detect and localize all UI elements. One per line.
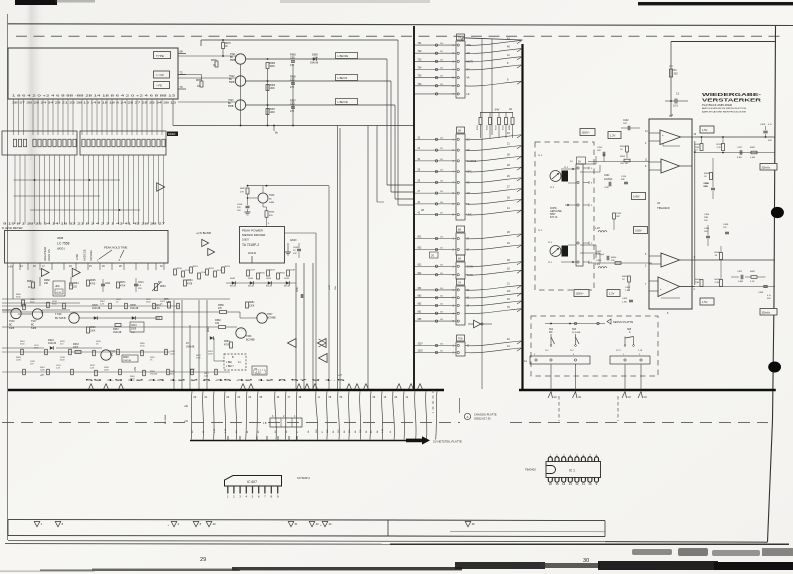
svg-text:558B: 558B xyxy=(228,106,234,108)
svg-text:100K: 100K xyxy=(170,353,175,355)
head connector ladder xyxy=(576,164,583,266)
svg-text:8,8N: 8,8N xyxy=(737,157,742,159)
svg-text:2,2K: 2,2K xyxy=(155,308,160,310)
svg-text:C637: C637 xyxy=(250,270,256,272)
svg-text:C408: C408 xyxy=(760,124,766,126)
wire supply drop xyxy=(670,42,672,118)
svg-text:BC: BC xyxy=(229,79,233,81)
svg-text:C6D: C6D xyxy=(290,57,295,60)
svg-text:C32: C32 xyxy=(215,323,220,325)
svg-text:R405: R405 xyxy=(715,279,721,281)
resistor R205 xyxy=(722,144,725,151)
resistor R405 xyxy=(720,280,723,287)
svg-text:T0A: T0A xyxy=(458,338,463,341)
svg-text:TA: TA xyxy=(458,37,461,40)
wire harness 8A right xyxy=(465,231,522,250)
svg-text:548B: 548B xyxy=(269,202,275,204)
svg-text:C406: C406 xyxy=(704,228,710,230)
wire dashed top rule xyxy=(16,35,781,37)
capacitor C633 xyxy=(297,248,301,250)
svg-text:R307: R307 xyxy=(750,147,756,149)
svg-text:R686: R686 xyxy=(218,304,224,307)
svg-text:D646: D646 xyxy=(230,278,236,280)
svg-text:DUNKEL: DUNKEL xyxy=(89,249,93,260)
svg-text:15: 15 xyxy=(555,482,559,486)
svg-text:12: 12 xyxy=(575,482,579,486)
svg-text:1N414B: 1N414B xyxy=(92,308,101,310)
buffer A604 triangle xyxy=(288,339,297,348)
svg-text:27K: 27K xyxy=(240,192,244,194)
capacitor C613 xyxy=(130,322,144,332)
transistor T623 xyxy=(235,100,245,110)
svg-text:BC: BC xyxy=(110,355,114,357)
wire supply rail y186 xyxy=(248,185,330,187)
svg-text:4,7u: 4,7u xyxy=(768,124,772,126)
svg-text:R660: R660 xyxy=(27,281,33,283)
wire harness 6A right xyxy=(465,259,522,275)
svg-text:VA: VA xyxy=(467,77,470,80)
svg-text:R68?: R68? xyxy=(240,188,246,190)
svg-text:R408: R408 xyxy=(715,252,721,254)
warning triangle 8b xyxy=(193,521,199,526)
svg-text:6A: 6A xyxy=(458,258,461,261)
svg-text:T616: T616 xyxy=(110,350,116,353)
svg-text:501: 501 xyxy=(440,273,443,275)
servo platte dashed box xyxy=(531,316,658,376)
label 1,5V upper xyxy=(700,126,714,133)
svg-text:18V: 18V xyxy=(623,123,627,125)
ground C618 xyxy=(247,209,249,212)
svg-text:505: 505 xyxy=(440,84,443,86)
svg-text:470K: 470K xyxy=(120,286,126,288)
svg-text:(MOD.): (MOD.) xyxy=(57,248,65,251)
svg-text:METER DRIVER: METER DRIVER xyxy=(242,233,266,237)
svg-text:AMPLIFICATEUR FR REPRODUCTION: AMPLIFICATEUR FR REPRODUCTION xyxy=(702,107,746,110)
svg-text:RA602: RA602 xyxy=(168,133,176,136)
connector T0A ladder xyxy=(456,342,465,356)
display unit DISP601 xyxy=(8,48,178,99)
board edge pin flags xyxy=(88,384,422,390)
connector 6A ladder xyxy=(456,262,465,279)
transistor T607 xyxy=(257,313,267,323)
svg-text:13: 13 xyxy=(569,482,573,486)
display pin 68 xyxy=(178,53,186,55)
IC 607 package outline xyxy=(225,476,282,487)
svg-text:uPA: uPA xyxy=(55,285,60,288)
svg-text:502: 502 xyxy=(440,159,443,161)
wire harness 7A left xyxy=(415,288,456,322)
svg-text:1007: 1007 xyxy=(418,344,424,346)
svg-text:R202: R202 xyxy=(620,156,626,158)
svg-text:502: 502 xyxy=(440,304,443,306)
svg-text:1N4148: 1N4148 xyxy=(48,343,57,345)
svg-text:558B: 558B xyxy=(229,82,235,84)
svg-text:18V: 18V xyxy=(597,150,601,152)
svg-text:25V: 25V xyxy=(138,288,142,290)
transistor T621 xyxy=(235,54,245,64)
svg-text:T630: T630 xyxy=(269,195,275,197)
svg-text:BC548B: BC548B xyxy=(267,318,276,320)
resistor R680 xyxy=(265,211,268,218)
resistor R683 xyxy=(230,342,233,348)
wire harness 5A left xyxy=(415,137,456,215)
svg-text:1,5V: 1,5V xyxy=(702,128,708,132)
IC 1 bottom pins xyxy=(548,478,598,483)
svg-text:DN: DN xyxy=(254,368,258,370)
warning triangle 40 xyxy=(206,521,212,526)
svg-text:68: 68 xyxy=(180,50,184,54)
wire meter lamp row 1 xyxy=(245,58,387,60)
wire head L to ladder xyxy=(561,168,576,170)
transistor T636 xyxy=(69,313,79,323)
display pin 72 xyxy=(178,74,186,76)
svg-text:502: 502 xyxy=(440,59,443,61)
wire emitter rail to 8v xyxy=(172,99,174,126)
svg-text:503: 503 xyxy=(440,68,443,70)
label node 20 xyxy=(430,252,439,258)
wire feedback rail xyxy=(694,141,696,285)
board edge right block bottom xyxy=(519,389,776,392)
svg-text:BC: BC xyxy=(269,199,272,201)
svg-text:100K: 100K xyxy=(40,369,45,371)
svg-text:R204: R204 xyxy=(695,144,701,146)
wire bus board-to-board connector xyxy=(191,392,437,440)
buffer A601 triangle xyxy=(157,183,165,191)
warning triangle 43 xyxy=(309,521,315,526)
svg-text:8414B: 8414B xyxy=(266,286,272,288)
voltage label +3.2V xyxy=(252,366,267,375)
svg-text:WIEDERGABE-: WIEDERGABE- xyxy=(702,92,762,98)
resistor R414 xyxy=(700,280,703,287)
IC LC 7558 level meter driver xyxy=(5,231,169,264)
svg-text:75B: 75B xyxy=(695,147,699,149)
label texture field xyxy=(16,294,214,380)
wire harness TA right xyxy=(465,38,522,86)
head housing dashed box xyxy=(535,142,594,290)
warning triangle 49 xyxy=(465,521,471,526)
svg-text:503: 503 xyxy=(440,311,443,313)
svg-text:1,2K: 1,2K xyxy=(166,302,171,304)
svg-text:56P: 56P xyxy=(621,179,625,181)
svg-text:AMPLIFICATORE FA RIPRODUZIONE: AMPLIFICATORE FA RIPRODUZIONE xyxy=(702,110,747,113)
svg-text:T622: T622 xyxy=(229,75,235,78)
label L BEI IR xyxy=(336,75,358,81)
wire servo drops xyxy=(550,364,552,390)
svg-text:120K: 120K xyxy=(270,112,276,114)
svg-text:504: 504 xyxy=(440,76,443,78)
resistor R669 column xyxy=(22,300,25,306)
wire output row 3 xyxy=(692,259,775,261)
svg-text:1000V~: 1000V~ xyxy=(576,293,585,296)
head ladder header 2A xyxy=(577,157,586,164)
IC 1 top pin numbers xyxy=(549,454,598,458)
svg-text:D628: D628 xyxy=(123,357,129,359)
resistor R306 xyxy=(710,173,713,180)
label 1000V~ upper xyxy=(580,129,595,136)
connector pin number labels bottom xyxy=(192,428,392,433)
IC TA7318P-2 peak power meter driver xyxy=(240,227,285,264)
resistor R687 xyxy=(246,302,249,308)
wire meter lamp row 2 xyxy=(245,80,391,82)
svg-text:2,2K: 2,2K xyxy=(90,367,95,369)
svg-text:+: + xyxy=(662,133,664,137)
svg-text:R83M: R83M xyxy=(509,124,511,130)
node junction dots on meter columns xyxy=(34,179,121,211)
svg-text:BC: BC xyxy=(9,325,13,327)
svg-text:A: A xyxy=(466,415,468,419)
svg-text:C304: C304 xyxy=(704,183,710,185)
svg-text:8A: 8A xyxy=(458,229,461,232)
svg-text:47K: 47K xyxy=(290,64,295,67)
svg-text:505: 505 xyxy=(440,191,443,193)
svg-text:R306: R306 xyxy=(704,173,710,175)
svg-text:5488: 5488 xyxy=(31,328,37,330)
svg-text:+: + xyxy=(660,287,662,291)
wire harness T0A right xyxy=(465,338,522,353)
svg-text:TA7318P-2: TA7318P-2 xyxy=(297,476,310,480)
board edge left block right xyxy=(413,26,415,390)
warning triangle 1 xyxy=(34,521,40,526)
resistor array RA601 xyxy=(2,131,77,155)
label 100mVs upper xyxy=(760,164,777,171)
note chassis platte xyxy=(464,413,470,419)
svg-text:8414B: 8414B xyxy=(284,286,290,288)
svg-text:+3.3V: +3.3V xyxy=(56,292,62,294)
wire row y303 xyxy=(2,302,80,304)
wire texture rows xyxy=(2,306,230,372)
svg-text:4708: 4708 xyxy=(187,284,193,286)
svg-text:0,8M: 0,8M xyxy=(738,281,743,283)
op-amp A1 xyxy=(660,130,681,145)
svg-text:R400: R400 xyxy=(611,257,617,259)
svg-text:C6D: C6D xyxy=(290,79,295,82)
svg-text:47K: 47K xyxy=(290,110,295,113)
transistor T617 xyxy=(32,309,42,319)
svg-text:C638: C638 xyxy=(290,270,296,272)
svg-text:D634: D634 xyxy=(284,278,290,280)
svg-text:5,1K: 5,1K xyxy=(750,281,755,283)
svg-text:R655: R655 xyxy=(260,273,266,275)
resistor array RA602 xyxy=(80,131,166,155)
servo connector bar 2 xyxy=(610,356,650,364)
svg-text:R985: R985 xyxy=(270,63,276,65)
svg-text:T607: T607 xyxy=(267,313,273,316)
switch box FE xyxy=(154,82,170,89)
buffer A602 triangle xyxy=(41,269,49,277)
svg-text:IC 607: IC 607 xyxy=(247,480,257,484)
svg-text:T621: T621 xyxy=(230,53,236,56)
wire long vertical x340 xyxy=(339,128,341,389)
svg-text:S08: S08 xyxy=(627,329,632,331)
svg-text:100K: 100K xyxy=(270,66,276,68)
svg-text:R656: R656 xyxy=(280,273,286,275)
svg-text:D624: D624 xyxy=(48,339,54,342)
svg-text:R667: R667 xyxy=(113,328,119,331)
svg-text:R678: R678 xyxy=(211,60,217,62)
svg-text:R407: R407 xyxy=(750,271,756,273)
svg-text:2,2K: 2,2K xyxy=(100,303,105,305)
svg-text:T610: T610 xyxy=(9,320,15,323)
svg-text:R665: R665 xyxy=(90,280,96,282)
arrow to meter board xyxy=(406,436,430,444)
svg-text:130K: 130K xyxy=(249,306,255,308)
resistor network mid xyxy=(613,213,616,219)
resistor R664 xyxy=(70,283,73,289)
wire top border xyxy=(7,24,793,26)
wire harness TA left xyxy=(415,43,456,95)
svg-text:D622: D622 xyxy=(208,326,210,332)
resistor network R210-R216 +24V xyxy=(480,112,513,114)
svg-text:TA 7318P-2: TA 7318P-2 xyxy=(242,243,259,247)
svg-text:R653: R653 xyxy=(225,266,231,268)
dashed box uPA display driver xyxy=(53,281,65,296)
svg-text:S03: S03 xyxy=(572,329,577,331)
svg-text:T617: T617 xyxy=(31,320,37,323)
wire long vertical x368 xyxy=(367,126,369,390)
label L BEI FE xyxy=(336,99,358,105)
buffer A605 triangle xyxy=(318,339,327,348)
svg-text:100mVs: 100mVs xyxy=(762,167,771,169)
wire collector bus to meter board xyxy=(190,440,406,442)
svg-text:2A: 2A xyxy=(578,161,581,164)
wire input row 1 xyxy=(588,161,649,163)
transistor T622 xyxy=(235,76,245,86)
svg-text:L BEI: L BEI xyxy=(226,361,232,364)
svg-text:R683: R683 xyxy=(224,341,230,343)
wire output row 1 xyxy=(695,136,775,138)
svg-text:R650: R650 xyxy=(177,268,183,270)
svg-text:DN: DN xyxy=(315,57,319,59)
svg-text:R652: R652 xyxy=(209,268,215,270)
svg-text:500: 500 xyxy=(440,237,443,239)
svg-text:D624: D624 xyxy=(266,278,272,280)
svg-text:C613: C613 xyxy=(131,325,137,327)
connector 5A header xyxy=(457,127,465,133)
svg-text:27K: 27K xyxy=(218,308,223,310)
svg-text:501: 501 xyxy=(440,296,443,298)
svg-text:D638: D638 xyxy=(130,304,136,307)
small part texture xyxy=(21,302,218,376)
svg-text:<< CR: << CR xyxy=(156,73,164,77)
warning bar xyxy=(8,520,605,521)
wire strip top rail xyxy=(462,38,523,40)
connector header box 3-2-1 xyxy=(270,418,302,427)
svg-text:100mVs: 100mVs xyxy=(762,312,771,314)
component row under driver IC xyxy=(247,270,296,280)
svg-text:C201: C201 xyxy=(604,175,610,177)
svg-text:8414B: 8414B xyxy=(248,286,254,288)
svg-text:ANZICGE: ANZICGE xyxy=(83,249,87,261)
svg-text:LC 7558: LC 7558 xyxy=(57,242,70,246)
IC 1 bottom pin numbers xyxy=(549,482,598,486)
board edge left block xyxy=(8,389,444,392)
wire output row 4 xyxy=(680,286,776,288)
svg-text:C618: C618 xyxy=(237,204,243,206)
svg-text:1N4148: 1N4148 xyxy=(310,63,319,65)
svg-text:0,45V: 0,45V xyxy=(633,196,640,199)
svg-text:1000V~: 1000V~ xyxy=(582,132,591,135)
svg-text:C402: C402 xyxy=(625,287,631,289)
wire meter rail y277 xyxy=(12,270,14,299)
svg-text:DOL/ME: DOL/ME xyxy=(572,332,581,334)
svg-text:HOLD: HOLD xyxy=(248,251,256,255)
svg-text:-24V: -24V xyxy=(494,109,500,112)
svg-text:R68x: R68x xyxy=(249,302,255,304)
connector 6A header xyxy=(457,255,465,261)
svg-text:75B: 75B xyxy=(695,282,699,284)
wire to logic box xyxy=(214,360,224,362)
svg-text:T623: T623 xyxy=(228,99,234,102)
svg-text:PEAK HOLD TIME: PEAK HOLD TIME xyxy=(104,246,128,250)
svg-text:R664: R664 xyxy=(73,283,79,285)
resistor R660 xyxy=(32,282,35,288)
component cluster right of meter IC xyxy=(174,266,231,279)
svg-text:CHASSIS-PLATTE: CHASSIS-PLATTE xyxy=(474,413,497,417)
svg-text:16: 16 xyxy=(549,482,553,486)
svg-text:D644: D644 xyxy=(248,278,254,280)
op-amp A2 xyxy=(661,159,680,173)
label 1,3V lower xyxy=(607,290,620,297)
svg-text:506: 506 xyxy=(440,202,443,204)
svg-text:501: 501 xyxy=(440,248,443,250)
wire input row 3 xyxy=(588,262,652,264)
wire bias rail top xyxy=(201,39,398,41)
svg-text:D637: D637 xyxy=(270,270,276,272)
svg-text:C304: C304 xyxy=(704,214,710,216)
playback head R xyxy=(550,246,561,257)
svg-text:C204: C204 xyxy=(621,176,627,178)
switch box TYPE xyxy=(154,52,171,59)
wire meter lamp row 3 xyxy=(245,104,395,106)
svg-text:IC 1: IC 1 xyxy=(569,469,575,473)
svg-text:+5V: +5V xyxy=(8,264,13,268)
wire dashed stub left of note xyxy=(432,390,434,413)
svg-text:2,4M: 2,4M xyxy=(750,157,755,159)
svg-text:1 B: 1 B xyxy=(263,423,267,425)
amp board top edge xyxy=(671,41,775,43)
warning triangle 8 xyxy=(55,521,61,526)
label 1,5V lower xyxy=(700,298,714,305)
svg-text:29552-017.30: 29552-017.30 xyxy=(474,417,491,421)
svg-text:R986: R986 xyxy=(270,85,276,87)
svg-text:L BEI IR: L BEI IR xyxy=(338,76,348,80)
svg-text:1K: 1K xyxy=(213,65,216,67)
svg-text:18N: 18N xyxy=(704,217,708,219)
switch box CR xyxy=(154,71,170,78)
transistor T616 xyxy=(101,350,111,360)
label 1000V~ lower xyxy=(574,290,589,297)
capacitor C618 xyxy=(246,205,250,207)
label L BEI RE xyxy=(336,53,358,59)
resistor R666 xyxy=(87,327,90,333)
svg-text:R633: R633 xyxy=(73,343,79,346)
svg-text:30V: 30V xyxy=(767,298,771,300)
svg-text:1K: 1K xyxy=(225,46,228,48)
wire left paper edge xyxy=(7,14,9,540)
IC 607 pin numbers xyxy=(227,495,279,499)
svg-text:558B: 558B xyxy=(230,60,236,62)
svg-text:BC548B: BC548B xyxy=(246,340,255,342)
wire head to amp upper xyxy=(580,163,596,165)
resistor R665 xyxy=(87,280,90,286)
IC 1 top pins xyxy=(548,457,598,462)
svg-text:S04: S04 xyxy=(549,329,554,331)
svg-text:ICI: ICI xyxy=(657,202,661,205)
svg-text:VERSTAERKER: VERSTAERKER xyxy=(702,98,762,104)
svg-text:2,1K: 2,1K xyxy=(717,147,722,149)
page fold rule xyxy=(8,541,605,542)
svg-text:501: 501 xyxy=(440,351,443,353)
